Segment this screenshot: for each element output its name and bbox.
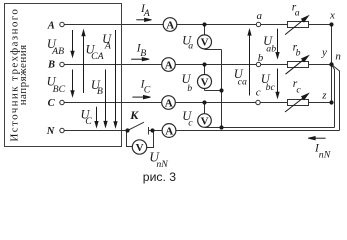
svg-text:c: c bbox=[256, 87, 261, 99]
svg-text:c: c bbox=[188, 118, 193, 129]
svg-text:A: A bbox=[165, 97, 173, 109]
svg-text:a: a bbox=[188, 41, 193, 52]
svg-text:y: y bbox=[321, 46, 327, 58]
svg-text:c: c bbox=[296, 84, 301, 95]
svg-text:nN: nN bbox=[156, 159, 168, 170]
svg-text:BC: BC bbox=[53, 84, 66, 95]
svg-text:CA: CA bbox=[91, 51, 105, 62]
svg-text:AB: AB bbox=[51, 46, 64, 57]
svg-text:nN: nN bbox=[319, 149, 331, 160]
svg-text:рис. 3: рис. 3 bbox=[143, 170, 176, 184]
svg-text:b: b bbox=[258, 52, 264, 64]
svg-text:V: V bbox=[201, 115, 209, 127]
svg-text:b: b bbox=[187, 83, 192, 94]
svg-text:B: B bbox=[140, 48, 146, 59]
svg-text:V: V bbox=[136, 142, 144, 154]
svg-text:N: N bbox=[46, 126, 55, 137]
svg-text:A: A bbox=[143, 8, 151, 19]
svg-text:n: n bbox=[335, 50, 341, 62]
svg-text:V: V bbox=[201, 37, 209, 49]
svg-text:К: К bbox=[129, 108, 139, 122]
svg-text:A: A bbox=[166, 19, 174, 31]
svg-text:x: x bbox=[329, 10, 335, 22]
svg-text:a: a bbox=[295, 8, 300, 19]
svg-text:A: A bbox=[47, 20, 55, 31]
svg-text:z: z bbox=[321, 90, 327, 102]
svg-text:A: A bbox=[104, 41, 112, 52]
svg-text:A: A bbox=[165, 59, 173, 71]
svg-text:bc: bc bbox=[266, 82, 276, 93]
svg-text:A: A bbox=[165, 125, 173, 137]
svg-text:C: C bbox=[144, 85, 151, 96]
svg-text:ab: ab bbox=[266, 43, 276, 54]
svg-text:V: V bbox=[201, 76, 209, 88]
svg-text:C: C bbox=[48, 98, 56, 109]
svg-text:a: a bbox=[257, 10, 263, 22]
svg-text:B: B bbox=[47, 60, 55, 71]
svg-text:напряжения: напряжения bbox=[17, 45, 29, 106]
svg-text:B: B bbox=[97, 86, 103, 97]
svg-text:ca: ca bbox=[238, 77, 247, 88]
svg-text:C: C bbox=[85, 116, 92, 127]
svg-text:b: b bbox=[296, 47, 301, 58]
